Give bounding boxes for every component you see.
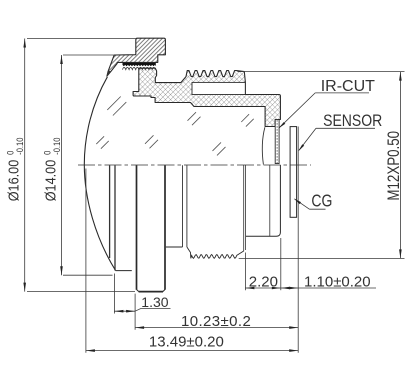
svg-text:1.30: 1.30 bbox=[141, 294, 168, 310]
lens element edges (lower half) bbox=[109, 165, 111, 258]
CG cover glass bbox=[290, 127, 297, 218]
svg-text:SENSOR: SENSOR bbox=[323, 112, 382, 130]
external thread silhouette (lower half) bbox=[187, 247, 244, 258]
cap lip tip bbox=[107, 71, 111, 77]
barrel section bbox=[133, 68, 280, 126]
front lens element outline bbox=[84, 77, 115, 271]
back barrel step bbox=[244, 165, 246, 251]
svg-text:CG: CG bbox=[311, 192, 332, 211]
svg-text:1.10±0.20: 1.10±0.20 bbox=[304, 274, 371, 291]
svg-text:13.49±0.20: 13.49±0.20 bbox=[149, 334, 224, 351]
leader IR-CUT bbox=[279, 93, 369, 128]
leader SENSOR bbox=[299, 128, 375, 150]
dim 1.30 bbox=[113, 274, 115, 314]
IR-CUT filter bbox=[275, 120, 279, 164]
aperture cone edge bbox=[262, 127, 265, 164]
serrated thread interface bbox=[123, 63, 157, 66]
dim phi16 bbox=[27, 38, 136, 40]
glass tick marks bbox=[107, 97, 126, 116]
centerline bbox=[78, 164, 311, 166]
dim 2.20 bbox=[244, 253, 246, 291]
flange (lower half) bbox=[137, 165, 164, 291]
relief groove silhouette bbox=[166, 246, 183, 248]
svg-text:M12XP0.50: M12XP0.50 bbox=[385, 131, 404, 201]
svg-text:2.20: 2.20 bbox=[249, 274, 278, 291]
dim 1.10 bbox=[281, 287, 376, 289]
svg-text:10.23±0.2: 10.23±0.2 bbox=[181, 313, 251, 330]
dim 13.49 bbox=[85, 169, 87, 353]
dim M12XP0.50 bbox=[237, 71, 404, 73]
lock ring / front cap section bbox=[107, 38, 165, 76]
dim phi14 bbox=[63, 54, 114, 56]
leader CG bbox=[295, 199, 326, 209]
dim 10.23 bbox=[297, 127, 299, 353]
svg-text:IR-CUT: IR-CUT bbox=[321, 78, 375, 95]
